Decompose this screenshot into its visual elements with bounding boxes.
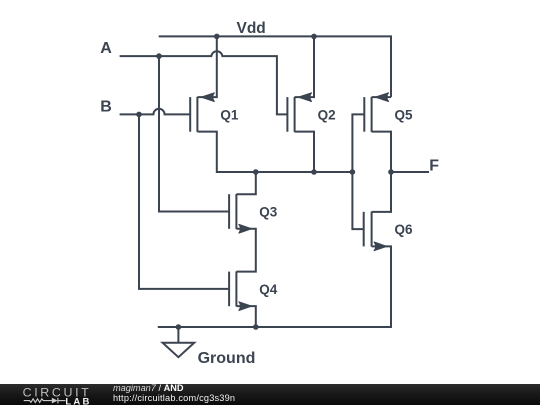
svg-text:B: B xyxy=(100,98,112,115)
footer bar xyxy=(0,384,540,405)
CircuitLab logo resistor-diode glyph xyxy=(24,398,66,404)
wire Q5 drain to node F xyxy=(372,132,391,172)
transistor Q5 (PMOS) xyxy=(364,93,388,132)
transistor Q6 (NMOS) xyxy=(364,212,387,251)
footer credit text xyxy=(112,383,114,385)
wire Q4 source to ground rail xyxy=(236,306,255,327)
svg-text:F: F xyxy=(429,157,439,174)
wire Vdd rail (with drop to Q5 source) xyxy=(159,36,391,97)
svg-text:Ground: Ground xyxy=(198,350,256,367)
wire input B (hops over A column, to Q1 gate) xyxy=(120,109,191,115)
junction NAND rail / inverter gates xyxy=(350,169,356,175)
junction NAND rail / Q3 drain xyxy=(253,169,259,175)
transistor Q3 (NMOS) xyxy=(229,194,251,233)
svg-text:Q5: Q5 xyxy=(395,107,414,122)
wire node F output xyxy=(391,171,429,173)
svg-text:Vdd: Vdd xyxy=(237,20,266,37)
junction NAND rail / Q2 drain xyxy=(311,169,317,175)
svg-text:Q4: Q4 xyxy=(259,282,278,297)
wire Q2 source to Vdd xyxy=(295,36,314,97)
junction ground rail / Q4 source xyxy=(253,324,259,330)
wire inverter gate column (Q5 gate to Q6 gate) xyxy=(352,114,364,229)
wire Q3 drain to NAND rail xyxy=(236,172,255,194)
transistor Q4 (NMOS) xyxy=(229,271,251,310)
wire ground stub xyxy=(177,327,179,343)
svg-text:A: A xyxy=(100,40,112,57)
svg-text:Q3: Q3 xyxy=(259,204,278,219)
wire Q3 source to Q4 drain xyxy=(236,229,255,272)
svg-text:Q2: Q2 xyxy=(318,107,336,122)
transistor Q2 (PMOS) xyxy=(287,93,311,132)
junction Vdd-Q1 xyxy=(214,34,220,40)
wire Q2 drain to NAND rail xyxy=(295,132,314,172)
wire Q1 source to Vdd xyxy=(197,36,216,97)
wire Q1 drain / NAND output rail xyxy=(197,132,352,172)
ground symbol xyxy=(163,343,195,357)
junction B wire / B column xyxy=(136,112,142,118)
svg-text:Q1: Q1 xyxy=(220,107,239,122)
svg-text:Q6: Q6 xyxy=(395,222,414,237)
junction node F xyxy=(388,169,394,175)
junction A wire / A column xyxy=(156,53,162,59)
wire Q5 source stub xyxy=(372,96,391,98)
wire input A (hops over Q1 source lead, down to Q2 gate) xyxy=(120,51,288,114)
wire Q6 source / ground rail xyxy=(158,246,391,327)
wire Q6 drain to node F xyxy=(372,172,391,212)
wire A column to Q3 gate xyxy=(159,56,229,211)
junction ground rail / ground symbol xyxy=(176,324,182,330)
svg-text:LAB: LAB xyxy=(65,396,91,405)
wire B column to Q4 gate xyxy=(139,114,229,289)
junction Vdd-Q2 xyxy=(311,34,317,40)
transistor Q1 (PMOS) xyxy=(190,93,214,132)
